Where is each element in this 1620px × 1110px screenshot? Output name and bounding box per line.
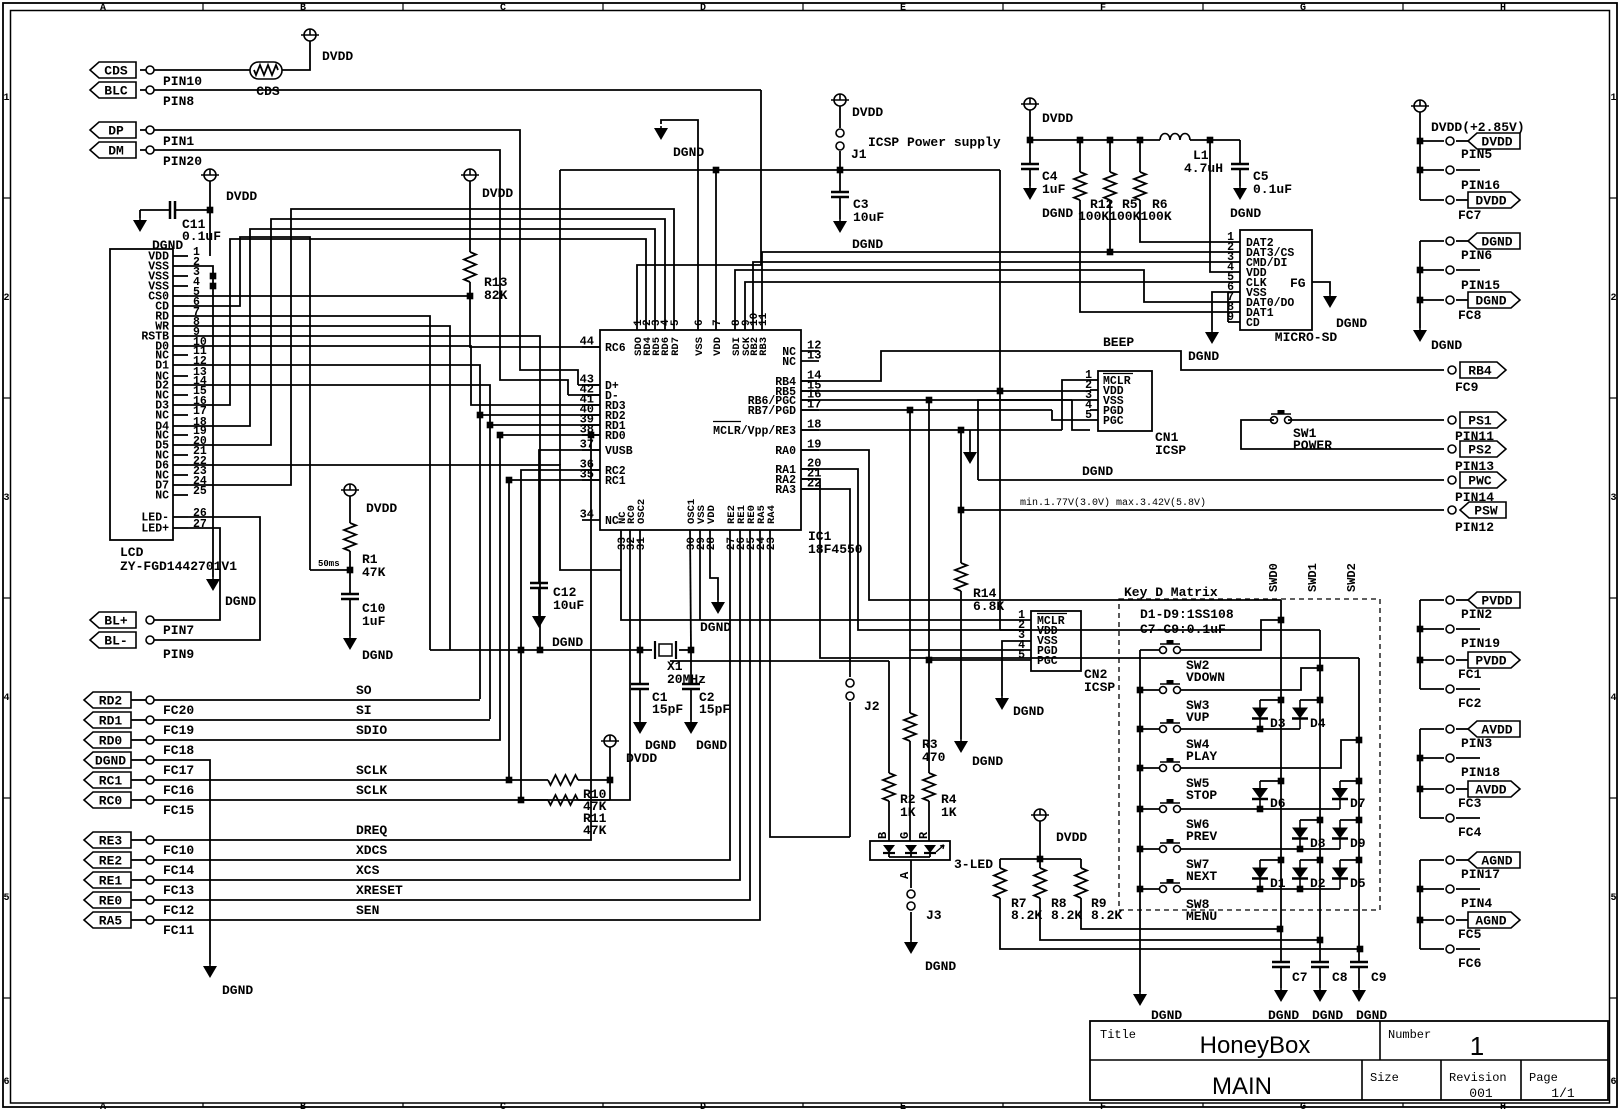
wire SD VSS CD ground — [1227, 292, 1229, 322]
svg-text:PIN8: PIN8 — [163, 94, 194, 109]
SWD1 column — [1319, 630, 1321, 962]
wire DGND rail to CN2 MCLR — [621, 530, 1031, 620]
LCD pin 22 D6 — [173, 464, 188, 466]
wire — [140, 130, 578, 385]
svg-text:RC1: RC1 — [605, 475, 626, 488]
switch SW3 VUP — [1140, 689, 1160, 691]
svg-text:Revision: Revision — [1449, 1071, 1507, 1085]
wire J3 to ground — [910, 912, 912, 940]
capacitor C11 — [169, 201, 172, 219]
svg-text:82K: 82K — [484, 288, 508, 303]
svg-text:FC16: FC16 — [163, 783, 194, 798]
svg-text:PIN10: PIN10 — [163, 74, 202, 89]
connector CN2 ICSP — [1031, 611, 1081, 671]
svg-text:B: B — [876, 832, 890, 839]
IC1 pin 43 D+ — [582, 384, 600, 386]
resistor R1 47K — [349, 496, 351, 523]
svg-text:D7: D7 — [1350, 796, 1366, 811]
wire LCD D4 to RD5 — [188, 229, 655, 426]
pin stub PIN16 — [1420, 169, 1444, 171]
connector RC0 — [84, 792, 131, 808]
IC1 pin 36 RC2 — [582, 469, 600, 471]
svg-text:H: H — [1500, 1102, 1506, 1110]
svg-text:FC20: FC20 — [163, 703, 194, 718]
svg-text:RB4: RB4 — [1468, 364, 1492, 379]
svg-text:SWD0: SWD0 — [1267, 563, 1281, 592]
svg-text:DVDD: DVDD — [482, 186, 513, 201]
svg-text:5: 5 — [1085, 409, 1092, 422]
connector DGND — [84, 752, 131, 768]
svg-text:4: 4 — [3, 693, 9, 704]
wire CN1 VDD net vertical — [999, 170, 1001, 630]
diode D9 — [1340, 819, 1359, 821]
LCD pin 5 CS0 — [173, 295, 188, 297]
svg-text:XRESET: XRESET — [356, 883, 403, 898]
resistor R4 1K — [928, 660, 930, 773]
LCD pin 25 NC — [173, 494, 188, 496]
svg-text:SEN: SEN — [356, 903, 379, 918]
svg-text:XDCS: XDCS — [356, 843, 387, 858]
svg-text:DGND: DGND — [1042, 206, 1073, 221]
IC1 MCLR overline — [713, 421, 741, 423]
svg-text:PIN2: PIN2 — [1461, 607, 1492, 622]
svg-text:1/1: 1/1 — [1551, 1086, 1575, 1101]
connector BL- — [90, 632, 136, 648]
svg-text:8.2K: 8.2K — [1091, 908, 1122, 923]
wire CN1 pin1 MCLR — [1062, 380, 1090, 430]
svg-text:POWER: POWER — [1293, 438, 1332, 453]
svg-text:15pF: 15pF — [699, 702, 730, 717]
LCD pin 4 VSS — [173, 285, 188, 287]
connector RB4 — [1460, 362, 1506, 378]
wire SDIO to RD0 pin — [154, 435, 600, 740]
svg-text:RD2: RD2 — [99, 694, 123, 709]
SWD0 column — [1280, 600, 1282, 962]
diode D7 — [1340, 780, 1359, 782]
svg-text:NEXT: NEXT — [1186, 869, 1217, 884]
SWD2 column — [1358, 658, 1360, 962]
wire SW4 diode row — [1180, 728, 1300, 730]
wire DGND tag down — [154, 760, 210, 964]
right column DGND group — [1419, 241, 1421, 328]
IC1 pin 19 RA0 — [801, 449, 819, 451]
IC1 pin 34 NC — [582, 519, 600, 521]
svg-text:FC10: FC10 — [163, 843, 194, 858]
IC1 pin 13 NC — [801, 360, 819, 362]
svg-text:J2: J2 — [864, 699, 880, 714]
svg-text:PIN15: PIN15 — [1461, 278, 1500, 293]
svg-text:FC7: FC7 — [1458, 208, 1481, 223]
wire CN1 ground arrow — [969, 430, 971, 450]
svg-text:RE0: RE0 — [99, 894, 123, 909]
svg-text:FC11: FC11 — [163, 923, 194, 938]
svg-text:C: C — [500, 1102, 506, 1110]
wire LCD CD reset RC — [188, 237, 310, 570]
svg-text:1uF: 1uF — [1042, 182, 1066, 197]
jumper J3 — [907, 890, 915, 898]
svg-text:PREV: PREV — [1186, 829, 1217, 844]
IC1 pin 22 RA3 — [801, 488, 819, 490]
capacitor C5 0.1uF — [1239, 140, 1241, 164]
connector RE2 — [84, 852, 131, 868]
power DVDD — [204, 169, 216, 181]
connector PVDD in — [1420, 599, 1444, 601]
connector PS1 — [1460, 412, 1506, 428]
photoresistor CDS — [250, 62, 282, 79]
svg-text:B: B — [300, 1102, 306, 1110]
capacitor C3 10uF — [839, 170, 841, 192]
diode D4 — [1300, 699, 1320, 701]
svg-text:27: 27 — [193, 518, 207, 531]
ground DGND — [1205, 332, 1219, 344]
svg-text:DGND: DGND — [1013, 704, 1044, 719]
svg-text:D3: D3 — [1270, 716, 1286, 731]
svg-text:RD0: RD0 — [99, 734, 123, 749]
IC1 pin 42 D- — [582, 394, 600, 396]
LCD pin 3 VSS — [173, 275, 188, 277]
connector AVDD out — [1420, 788, 1444, 790]
right column DVDD group — [1414, 100, 1426, 112]
resistor R8 8.2K — [1039, 859, 1041, 868]
svg-text:J3: J3 — [926, 908, 942, 923]
IC1 pin 40 RD2 — [582, 414, 600, 416]
svg-text:RA0: RA0 — [775, 445, 796, 458]
svg-text:11: 11 — [758, 312, 770, 326]
svg-text:G: G — [898, 832, 912, 839]
micro-SD socket — [1240, 230, 1312, 330]
wire DP net vertical to D+ — [578, 384, 600, 386]
svg-text:RA3: RA3 — [775, 484, 796, 497]
IC1 pin 17 RB7/PGD — [801, 409, 819, 411]
svg-text:47K: 47K — [362, 565, 386, 580]
power DVDD — [304, 29, 316, 41]
svg-text:Title: Title — [1100, 1028, 1136, 1042]
LCD pin 1 VDD — [173, 255, 188, 257]
svg-text:BL-: BL- — [104, 634, 127, 649]
wire SCLK to RC1 pin — [154, 480, 600, 780]
svg-text:DGND: DGND — [852, 237, 883, 252]
svg-text:CDS: CDS — [104, 64, 128, 79]
title block — [1090, 1021, 1608, 1100]
svg-text:SWD1: SWD1 — [1306, 563, 1320, 592]
svg-text:RD7: RD7 — [670, 337, 682, 356]
svg-text:DGND: DGND — [225, 594, 256, 609]
resistor R10 47K — [509, 779, 548, 781]
resistor R13 82K — [464, 169, 476, 181]
crystal X1 20MHz — [640, 649, 652, 651]
LCD pin 18 D4 — [173, 425, 188, 427]
svg-text:DGND: DGND — [696, 738, 727, 753]
diode D1 — [1260, 859, 1281, 861]
wire OSC2 pin31 — [639, 530, 641, 650]
svg-text:PIN1: PIN1 — [163, 134, 194, 149]
svg-text:C7: C7 — [1292, 970, 1308, 985]
svg-text:D2: D2 — [1310, 876, 1326, 891]
svg-text:31: 31 — [636, 537, 648, 551]
ground DGND below LCD — [206, 579, 220, 591]
LCD module ZY-FGD1442701V1 — [110, 249, 173, 540]
wire RA3 pin22 to J2 — [801, 489, 850, 677]
svg-text:DGND: DGND — [972, 754, 1003, 769]
svg-text:PIN19: PIN19 — [1461, 636, 1500, 651]
wire — [140, 69, 250, 71]
wire VDD pin7 up — [715, 170, 717, 330]
svg-text:0.1uF: 0.1uF — [182, 229, 221, 244]
svg-text:VDOWN: VDOWN — [1186, 670, 1225, 685]
svg-text:CDS: CDS — [256, 84, 280, 99]
svg-text:SWD2: SWD2 — [1345, 563, 1359, 592]
svg-text:FC17: FC17 — [163, 763, 194, 778]
switch SW6 PREV — [1140, 808, 1160, 810]
wire LCD D1 to SO / RD2 — [188, 365, 480, 699]
wire RB6/PGC row — [801, 399, 1072, 401]
svg-text:PIN18: PIN18 — [1461, 765, 1500, 780]
jumper J1 ICSP power supply — [834, 94, 846, 106]
svg-text:15pF: 15pF — [652, 702, 683, 717]
IC1 pin 15 RB5 — [801, 390, 819, 392]
svg-text:F: F — [1100, 1102, 1106, 1110]
CN1 pin 1 MCLR — [1090, 379, 1098, 381]
svg-text:MICRO-SD: MICRO-SD — [1275, 330, 1338, 345]
IC1 pin 39 RD1 — [582, 424, 600, 426]
svg-text:BL+: BL+ — [104, 614, 128, 629]
capacitor C12 10uF — [530, 582, 548, 585]
wire DM net vertical to D- — [568, 394, 600, 396]
svg-text:MENU: MENU — [1186, 909, 1217, 924]
wire LCD D7 to RD7 — [188, 209, 674, 485]
IC1 pin 21 RA2 — [801, 478, 819, 480]
connector PVDD out — [1420, 659, 1444, 661]
svg-text:RB7/PGD: RB7/PGD — [748, 405, 796, 418]
svg-text:PIN7: PIN7 — [163, 623, 194, 638]
capacitor C8 — [1311, 961, 1329, 964]
svg-text:ICSP: ICSP — [1155, 443, 1186, 458]
connector RE1 — [84, 872, 131, 888]
svg-text:RC1: RC1 — [99, 774, 123, 789]
svg-text:DVDD: DVDD — [1042, 111, 1073, 126]
svg-text:1K: 1K — [941, 805, 957, 820]
IC1 pin 35 RC1 — [582, 479, 600, 481]
wire LED+ to BL+ — [150, 528, 220, 620]
CN1 pin 5 PGC — [1090, 419, 1098, 421]
svg-text:PIN17: PIN17 — [1461, 867, 1500, 882]
svg-text:18F4550: 18F4550 — [808, 542, 863, 557]
resistor R7 8.2K — [999, 859, 1001, 868]
LED G — [905, 845, 917, 853]
svg-text:13: 13 — [807, 349, 821, 363]
wire LCD D0 to RD3 — [188, 346, 600, 405]
svg-text:D8: D8 — [1310, 836, 1326, 851]
connector RD1 — [84, 712, 131, 728]
svg-text:D1: D1 — [1270, 876, 1286, 891]
wire BEEP RB4 — [801, 351, 1444, 381]
wire DGND to PWC — [978, 479, 1444, 481]
ground DGND — [203, 966, 217, 978]
svg-text:DGND: DGND — [1431, 338, 1462, 353]
svg-text:PWC: PWC — [1468, 474, 1492, 489]
svg-text:RE2: RE2 — [99, 854, 123, 869]
resistor R2 1K — [888, 661, 890, 773]
wire DVDD to R8 — [1039, 821, 1041, 859]
svg-text:D4: D4 — [1310, 716, 1326, 731]
wire DVDD rail — [560, 169, 1000, 171]
svg-text:FC3: FC3 — [1458, 796, 1482, 811]
LCD pin 23 NC — [173, 474, 188, 476]
svg-text:G: G — [1300, 3, 1306, 14]
wire MCLR row — [801, 429, 1062, 431]
capacitor C10 1uF — [349, 570, 351, 594]
svg-text:R: R — [917, 831, 931, 839]
resistor R9 8.2K — [1080, 859, 1082, 868]
svg-text:DVDD: DVDD — [1056, 830, 1087, 845]
wire CN1 VSS to DGND line — [978, 400, 1090, 480]
svg-text:4.7uH: 4.7uH — [1184, 161, 1223, 176]
svg-text:E: E — [900, 1102, 906, 1110]
svg-text:PIN20: PIN20 — [163, 154, 202, 169]
connector RE0 — [84, 892, 131, 908]
svg-text:DGND: DGND — [1082, 464, 1113, 479]
connector PS2 — [1460, 441, 1506, 457]
svg-text:PIN5: PIN5 — [1461, 147, 1492, 162]
wire RC2 row R11 — [521, 470, 600, 800]
key matrix left bus — [1139, 650, 1141, 992]
CN1 pin 4 PGD — [1090, 409, 1098, 411]
wire RA2 pin21 to SWD2 — [801, 479, 1359, 658]
svg-text:RD0: RD0 — [605, 430, 626, 443]
wire — [282, 41, 310, 70]
wire VSS pin6 up to DGND — [661, 120, 698, 330]
pin stub PIN19 — [1420, 628, 1444, 630]
LED module 3-LED — [870, 841, 950, 860]
svg-text:J1: J1 — [851, 147, 867, 162]
svg-text:RA5: RA5 — [99, 914, 123, 929]
IC1 pin 20 RA1 — [801, 468, 819, 470]
svg-text:STOP: STOP — [1186, 788, 1217, 803]
LCD pin 13 NC — [173, 375, 188, 377]
wire SDO pin1 to BLC net — [637, 90, 761, 330]
ground DGND — [1323, 296, 1337, 308]
svg-text:NC: NC — [782, 356, 796, 369]
svg-text:1K: 1K — [900, 805, 916, 820]
svg-text:PIN4: PIN4 — [1461, 896, 1492, 911]
LCD pin 6 CD — [173, 305, 188, 307]
svg-text:10uF: 10uF — [553, 598, 584, 613]
wire LCD WR down — [188, 326, 450, 650]
svg-text:PGC: PGC — [1103, 415, 1124, 428]
LCD pin 17 NC — [173, 414, 188, 416]
diode D2 — [1300, 859, 1320, 861]
diode D3 — [1260, 699, 1281, 701]
connector RA5 — [84, 912, 131, 928]
svg-text:470: 470 — [922, 750, 946, 765]
LCD pin 16 D3 — [173, 404, 188, 406]
svg-text:2: 2 — [1610, 293, 1616, 304]
LCD pin 10 D0 — [173, 345, 188, 347]
wire PGD down to CN2 — [910, 410, 1031, 650]
connector RD0 — [84, 732, 131, 748]
svg-text:DVDD: DVDD — [226, 189, 257, 204]
svg-text:2: 2 — [3, 293, 9, 304]
svg-text:DGND: DGND — [1475, 294, 1506, 309]
svg-text:FC19: FC19 — [163, 723, 194, 738]
svg-text:PIN3: PIN3 — [1461, 736, 1492, 751]
svg-text:HoneyBox: HoneyBox — [1200, 1032, 1311, 1059]
LCD pin 8 WR — [173, 325, 188, 327]
capacitor C9 — [1350, 961, 1368, 964]
wire RB3 pin11 to DAT3/CS — [762, 252, 1240, 330]
wire CN1 pin5 PGC — [1072, 400, 1090, 430]
svg-text:4: 4 — [1610, 693, 1616, 704]
svg-text:5: 5 — [670, 319, 682, 326]
svg-text:DVDD: DVDD — [1475, 194, 1506, 209]
svg-text:7: 7 — [712, 319, 724, 326]
svg-text:100K100K100K: 100K100K100K — [1078, 209, 1172, 224]
diode D5 — [1340, 859, 1359, 861]
wire SW8 diode row — [1180, 888, 1340, 890]
wire LCD CS0 pull-up to RC6 — [188, 295, 470, 297]
wire LED common — [888, 853, 890, 857]
svg-text:VUP: VUP — [1186, 710, 1210, 725]
svg-text:28: 28 — [706, 537, 718, 551]
wire DVDD rail to SD — [1029, 110, 1031, 140]
connector BLC — [90, 82, 136, 98]
svg-text:FC18: FC18 — [163, 743, 194, 758]
ground DGND — [1413, 330, 1427, 342]
diode D6 — [1260, 780, 1281, 782]
power DVDD R1 — [344, 484, 356, 496]
connector RD2 — [84, 692, 131, 708]
LCD pin 2 VSS — [173, 265, 188, 267]
svg-text:BEEP: BEEP — [1103, 335, 1134, 350]
svg-text:6.8K: 6.8K — [973, 599, 1004, 614]
svg-text:1uF: 1uF — [362, 614, 386, 629]
svg-text:DVDD: DVDD — [322, 49, 353, 64]
svg-text:1: 1 — [1470, 1031, 1484, 1061]
svg-text:8.2K: 8.2K — [1051, 908, 1082, 923]
svg-text:XCS: XCS — [356, 863, 380, 878]
svg-text:ICSP: ICSP — [1084, 680, 1115, 695]
svg-text:FC2: FC2 — [1458, 696, 1482, 711]
svg-text:Number: Number — [1388, 1028, 1431, 1042]
wire CN2 VSS to ground — [1002, 641, 1031, 696]
svg-text:DGND: DGND — [362, 648, 393, 663]
wire SW3 to SWD1 — [1180, 668, 1320, 690]
svg-text:NC: NC — [155, 490, 169, 503]
svg-text:DP: DP — [108, 124, 124, 139]
pin stub FC4 — [1420, 817, 1444, 819]
svg-text:SI: SI — [356, 703, 372, 718]
svg-text:DGND: DGND — [700, 620, 731, 635]
svg-text:F: F — [1100, 3, 1106, 14]
LCD pin 24 D7 — [173, 484, 188, 486]
LCD pin 12 D1 — [173, 364, 188, 366]
svg-text:DGND: DGND — [1188, 349, 1219, 364]
LCD pin 7 RD — [173, 315, 188, 317]
wire PIN10 net — [140, 89, 761, 91]
svg-text:RC0: RC0 — [99, 794, 123, 809]
wire SCK pin9 to CLK — [745, 282, 1240, 330]
wire LCD D3 to RD4 — [188, 239, 646, 405]
connector DP — [90, 122, 136, 138]
wire RA1 pin20 to SWD1 — [801, 469, 1320, 630]
switch SW5 STOP — [1140, 767, 1160, 769]
svg-text:10uF: 10uF — [853, 210, 884, 225]
switch SW2 VDOWN — [1140, 649, 1160, 651]
resistor R11 47K — [521, 799, 548, 801]
svg-text:BLC: BLC — [104, 84, 128, 99]
svg-text:DGND: DGND — [552, 635, 583, 650]
svg-text:VDD: VDD — [706, 505, 718, 524]
